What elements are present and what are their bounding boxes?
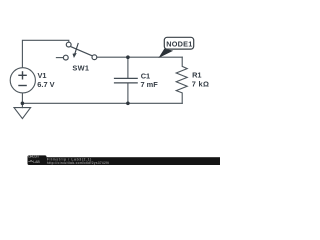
svg-text:C1: C1 (141, 71, 150, 80)
svg-text:7 mF: 7 mF (141, 80, 159, 89)
svg-text:6.7 V: 6.7 V (37, 80, 54, 89)
svg-text:CIRCUIT: CIRCUIT (28, 155, 39, 159)
svg-text:R1: R1 (192, 71, 201, 80)
svg-text:LAB: LAB (33, 160, 40, 164)
svg-text:NODE1: NODE1 (166, 40, 192, 49)
svg-text:SW1: SW1 (72, 64, 89, 73)
svg-text:7 kΩ: 7 kΩ (192, 80, 209, 89)
svg-text:http://circuitlab.com/c6df2ys3: http://circuitlab.com/c6df2ys37429i (47, 161, 109, 165)
